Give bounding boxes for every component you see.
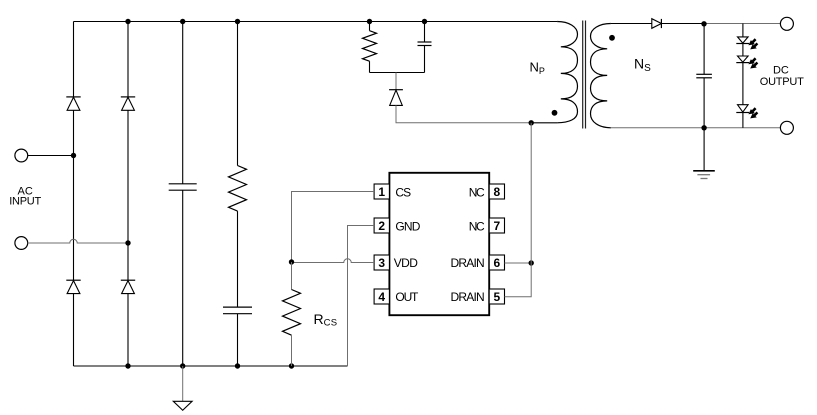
wire AC bottom lead with hop over x73 xyxy=(28,239,128,243)
pin 8 box xyxy=(489,184,504,199)
node junction top rail x182 xyxy=(180,19,185,24)
diode D5 clamp xyxy=(389,73,403,106)
node junction output cap bottom xyxy=(701,125,706,130)
capacitor C4 output xyxy=(696,24,712,128)
wire secondary top xyxy=(611,23,652,25)
pin 6 box xyxy=(489,255,504,270)
node junction top rail x237 xyxy=(235,19,240,24)
resistor R2 snubber xyxy=(363,22,377,73)
svg-text:OUT: OUT xyxy=(395,290,419,304)
wire VDD pin3 with hop xyxy=(292,259,375,263)
terminal DC out top xyxy=(780,17,793,30)
node junction AC top / bridge xyxy=(71,153,76,158)
node junction output cap top xyxy=(701,21,706,26)
pin 5 box xyxy=(489,289,504,304)
node phase dot secondary xyxy=(609,35,615,41)
wire secondary bottom rail xyxy=(611,127,781,129)
wire GND pin2 xyxy=(348,226,375,367)
LED2 emission arrows xyxy=(748,57,758,68)
diode D4 bridge bottom-right xyxy=(121,280,135,293)
pin 2 box xyxy=(374,218,389,233)
diode D2 bridge top-right xyxy=(121,97,135,110)
wire top rail xyxy=(74,21,558,23)
node junction bottom rail x182 xyxy=(180,363,185,368)
svg-text:3: 3 xyxy=(378,256,385,270)
IC U1 body xyxy=(389,173,489,315)
pin 3 box xyxy=(374,255,389,270)
svg-text:CS: CS xyxy=(395,185,411,199)
svg-text:GND: GND xyxy=(395,219,420,233)
LED LED1 xyxy=(736,37,749,44)
terminal AC top xyxy=(15,149,28,162)
wire LED2-LED3 xyxy=(742,63,744,105)
node junction bottom rail x127.5 xyxy=(125,363,130,368)
ground arrow left xyxy=(173,366,192,410)
svg-text:8: 8 xyxy=(493,185,500,199)
wire CS pin1 xyxy=(292,192,375,263)
svg-text:INPUT: INPUT xyxy=(9,196,41,208)
svg-text:7: 7 xyxy=(493,219,500,233)
wire primary bottom xyxy=(531,122,557,124)
wire left column x73 xyxy=(73,22,75,367)
node junction VDD/CS/Rcs xyxy=(289,259,294,264)
wire LED1-LED2 xyxy=(742,44,744,57)
wire drain vertical from transformer xyxy=(505,123,532,297)
resistor R1 xyxy=(229,22,247,308)
capacitor C3 snubber xyxy=(418,22,432,73)
svg-text:4: 4 xyxy=(378,290,385,304)
diode D1 bridge top-left xyxy=(66,97,80,110)
pin 1 box xyxy=(374,184,389,199)
terminal DC out bottom xyxy=(780,121,793,134)
wire drain pin6 xyxy=(505,262,532,264)
svg-text:OUTPUT: OUTPUT xyxy=(760,76,804,88)
wire LED string top xyxy=(742,24,744,37)
wire column x127.5 xyxy=(127,22,129,367)
svg-text:DRAIN: DRAIN xyxy=(451,290,485,304)
pin 7 box xyxy=(489,218,504,233)
node phase dot primary xyxy=(552,110,558,116)
node junction drain pin6 xyxy=(529,260,534,265)
node junction bottom rail x237 xyxy=(235,363,240,368)
wire bottom rail xyxy=(74,365,348,367)
node junction AC bottom / bridge xyxy=(125,240,130,245)
transformer secondary winding Ns xyxy=(591,24,611,128)
LED3 emission arrows xyxy=(748,107,758,118)
wire secondary top after diode xyxy=(661,23,704,25)
transformer primary winding Np xyxy=(557,22,577,123)
LED1 emission arrows xyxy=(748,38,758,49)
node junction top rail x127.5 xyxy=(125,19,130,24)
ground earth secondary xyxy=(693,128,715,179)
node junction bottom rail x291 xyxy=(289,363,294,368)
capacitor C2 xyxy=(223,307,252,366)
diode D6 output rectifier xyxy=(652,19,662,29)
node junction drain / primary bottom xyxy=(529,120,534,125)
node junction top rail snubber right xyxy=(422,19,427,24)
svg-text:DRAIN: DRAIN xyxy=(451,256,485,270)
wire LED string bottom xyxy=(742,113,744,128)
wire AC top lead xyxy=(28,155,74,157)
transformer core xyxy=(583,21,586,129)
pin 4 box xyxy=(374,289,389,304)
LED LED3 xyxy=(736,105,749,113)
svg-text:1: 1 xyxy=(378,185,385,199)
svg-text:DC: DC xyxy=(773,64,789,76)
resistor Rcs xyxy=(283,262,301,366)
svg-text:6: 6 xyxy=(493,256,500,270)
LED LED2 xyxy=(736,56,749,63)
svg-text:VDD: VDD xyxy=(394,256,418,270)
node junction top rail snubber left xyxy=(367,19,372,24)
wire snubber bottom bar xyxy=(370,72,425,74)
svg-text:NC: NC xyxy=(469,219,485,233)
terminal AC bottom xyxy=(15,237,28,250)
diode D3 bridge bottom-left xyxy=(66,280,80,293)
wire clamp diode to primary bottom xyxy=(396,105,531,122)
svg-text:NC: NC xyxy=(469,185,485,199)
capacitor C1 bulk xyxy=(169,22,197,367)
svg-text:5: 5 xyxy=(493,290,500,304)
svg-text:2: 2 xyxy=(378,219,385,233)
